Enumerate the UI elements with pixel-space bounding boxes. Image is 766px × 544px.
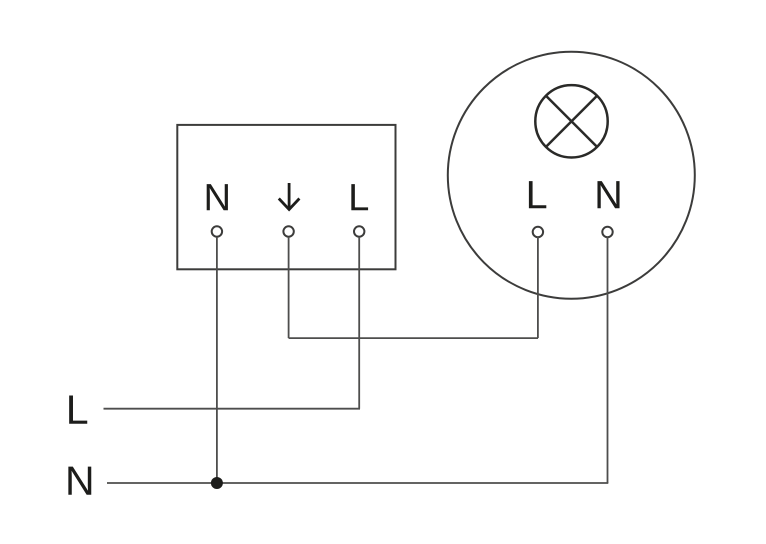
terminal block U1 (sensor connection box) xyxy=(177,125,395,269)
terminal label L (lamp) xyxy=(529,181,546,208)
wire: box L terminal down to L line xyxy=(358,237,360,409)
wire: N supply horizontal line xyxy=(107,482,608,484)
wire: switched live horizontal run xyxy=(289,337,538,339)
terminal label N (box) xyxy=(207,184,228,210)
wire: L supply horizontal line xyxy=(104,408,361,410)
terminal pin L (box) xyxy=(354,226,364,236)
junction dot on N line xyxy=(211,477,223,489)
luminaire E1 (lamp body circle) xyxy=(448,52,695,299)
net label N (supply) xyxy=(68,467,91,495)
terminal pin N (lamp) xyxy=(602,227,612,237)
terminal label N (lamp) xyxy=(597,181,619,208)
terminal pin arrow (box) xyxy=(283,226,293,236)
net label L (supply) xyxy=(69,395,87,423)
lamp symbol (circle with X) xyxy=(535,85,607,157)
terminal pin N (box) xyxy=(212,226,222,236)
wire: lamp L terminal down xyxy=(537,237,539,338)
terminal label L (box) xyxy=(351,184,368,210)
wire: box arrow terminal down xyxy=(288,237,290,338)
wire: lamp N terminal down to N line xyxy=(607,237,609,483)
wire: box N terminal down to N line xyxy=(216,237,218,483)
terminal pin L (lamp) xyxy=(533,227,543,237)
load arrow symbol (switched output terminal) xyxy=(279,183,300,210)
